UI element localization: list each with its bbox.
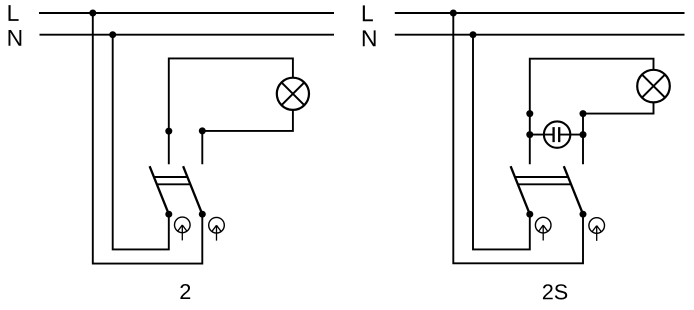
switch S1 pole 1 blade	[150, 166, 169, 214]
wire N rail	[40, 34, 335, 36]
switch S2 pole 2 pivot dot	[580, 211, 587, 218]
terminal dot left wire upper	[526, 110, 533, 117]
caption label 2	[180, 284, 190, 299]
net label L	[363, 5, 373, 21]
actuator symbol pole 2 (circle with up arrow)	[209, 217, 225, 240]
wire lamp return to right fixed contact	[583, 102, 654, 164]
switch S2 coupling bar upper	[515, 176, 568, 178]
actuator symbol pole 2 (circle with up arrow)	[589, 218, 605, 241]
wire L feed to right pole pivot	[453, 13, 583, 263]
switch S2 pole 1 blade	[511, 166, 530, 214]
net label N	[9, 30, 22, 46]
caption label 2S	[543, 284, 567, 299]
junction dot on L rail	[450, 10, 457, 17]
junction dot glow lamp left	[526, 131, 533, 138]
terminal dot right wire upper	[580, 110, 587, 117]
actuator symbol pole 1 (circle with up arrow)	[535, 217, 551, 240]
actuator symbol pole 1 (circle with up arrow)	[175, 217, 191, 240]
net label N	[363, 30, 376, 46]
junction dot glow lamp right	[580, 131, 587, 138]
wire L rail	[39, 12, 334, 14]
junction dot on N rail	[109, 31, 116, 38]
switch S2 pole 1 pivot dot	[526, 211, 533, 218]
junction dot on N rail	[470, 31, 477, 38]
switch S1 coupling bar lower	[157, 183, 191, 185]
switch S1 pole 1 pivot dot	[165, 211, 172, 218]
wire N feed to left pole pivot	[473, 35, 530, 250]
switch S1 pole 2 pivot dot	[199, 211, 206, 218]
lamp E1	[277, 78, 309, 110]
switch S2 coupling bar lower	[518, 183, 571, 185]
net label L	[9, 5, 19, 21]
lamp E2	[637, 70, 670, 103]
terminal dot on left fixed-contact wire	[165, 128, 172, 135]
wire left fixed contact up and over to lamp	[169, 58, 293, 164]
junction dot on L rail	[89, 10, 96, 17]
terminal dot on right fixed-contact wire	[199, 127, 206, 134]
wire L feed to right pole pivot	[93, 13, 203, 264]
switch S2 pole 2 blade	[564, 166, 583, 214]
wire N rail	[395, 34, 685, 36]
glow lamp H1 (neon)	[531, 121, 582, 147]
switch S1 coupling bar upper	[154, 176, 188, 178]
wire lamp return to right fixed contact	[202, 110, 293, 164]
switch S1 pole 2 blade	[183, 166, 202, 214]
wire left fixed contact up and over to lamp	[530, 59, 654, 165]
wire L rail	[395, 12, 685, 14]
wire N feed to left pole pivot	[113, 35, 169, 250]
